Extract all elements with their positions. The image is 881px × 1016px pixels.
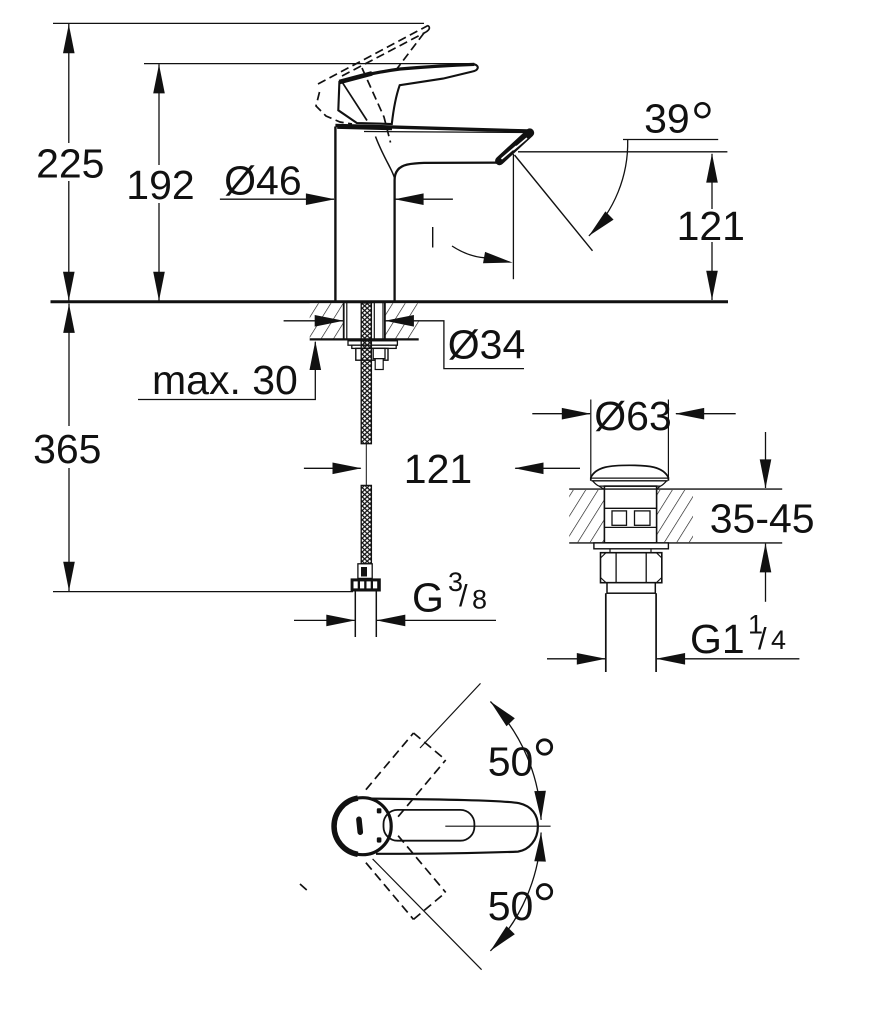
deck line bbox=[51, 300, 729, 303]
shank edges bbox=[343, 303, 345, 339]
bottom view: body circle bbox=[334, 798, 391, 855]
svg-text:G1: G1 bbox=[690, 616, 745, 662]
extension line (192) bbox=[144, 63, 469, 65]
spout top secondary line bbox=[364, 132, 526, 133]
stud lower bbox=[375, 359, 383, 370]
degree symbol 50 down bbox=[537, 885, 551, 899]
dark junction under handle base bbox=[337, 127, 392, 128]
svg-text:121: 121 bbox=[677, 203, 745, 249]
bottom view: 50deg arc up bbox=[490, 702, 541, 820]
svg-text:Ø46: Ø46 bbox=[224, 157, 302, 203]
drain counter bottom line bbox=[569, 542, 782, 544]
svg-text:192: 192 bbox=[126, 162, 194, 208]
mounting stud bbox=[373, 303, 375, 339]
handle raised (dashed) bbox=[316, 26, 429, 143]
svg-text:/: / bbox=[459, 578, 468, 613]
counter hatch right of shank bbox=[385, 303, 419, 338]
svg-text:365: 365 bbox=[33, 426, 101, 472]
svg-text:39: 39 bbox=[644, 96, 690, 142]
dimension 365 vertical line bbox=[68, 304, 70, 426]
drain neck bbox=[609, 549, 611, 553]
svg-text:35-45: 35-45 bbox=[710, 496, 815, 542]
39 degree reference line bbox=[518, 151, 727, 153]
svg-text:50: 50 bbox=[488, 738, 534, 784]
drain collar bbox=[607, 583, 655, 594]
bottom view: lever outline bbox=[370, 799, 538, 854]
svg-text:Ø63: Ø63 bbox=[594, 393, 672, 439]
extension line top (225) bbox=[53, 22, 424, 24]
dimension 121 horizontal bbox=[304, 467, 361, 469]
stream line bbox=[515, 155, 593, 251]
drain dome cap bbox=[591, 465, 669, 481]
drain locknut bbox=[601, 553, 662, 583]
bottom view: extension line up bbox=[420, 683, 481, 748]
bottom view: body circle thick left arc bbox=[334, 798, 358, 854]
bottom view: dashed lever down bbox=[366, 863, 414, 920]
tip highlight streaks bbox=[514, 139, 527, 150]
bottom view: 50deg arc down bbox=[490, 833, 541, 951]
stud nut bbox=[373, 348, 385, 358]
bottom view: dashed lever up bbox=[300, 733, 446, 919]
dimension 35-45 bbox=[765, 432, 767, 488]
deck bottom line bbox=[310, 338, 419, 340]
dimension 121 right vertical bbox=[711, 154, 713, 209]
hose end connector bbox=[358, 564, 372, 579]
drain washer bbox=[594, 543, 669, 549]
bottom view: indicator dots bbox=[377, 808, 382, 813]
dimension G1 1/4 bbox=[547, 658, 605, 660]
bottom view: lever inner bbox=[384, 810, 475, 841]
flexible hose upper bbox=[361, 303, 371, 444]
extension line bottom (365) bbox=[53, 591, 353, 593]
bottom view: extension line down bbox=[373, 859, 482, 970]
degree symbol 50 up bbox=[537, 740, 551, 754]
svg-text:8: 8 bbox=[472, 584, 487, 614]
svg-text:50: 50 bbox=[488, 883, 534, 929]
drain counter top line bbox=[569, 488, 782, 490]
faucet top edge (body to spout tip) bbox=[335, 125, 530, 134]
drain counter hatch bbox=[569, 490, 604, 542]
degree symbol 39 bbox=[696, 103, 710, 117]
drain tailpipe bbox=[605, 593, 607, 672]
stream tick below spout bbox=[432, 227, 434, 248]
faucet body left edge bbox=[334, 127, 336, 301]
svg-text:4: 4 bbox=[771, 625, 786, 655]
dimension D46 arrows bbox=[220, 198, 334, 200]
dimension 225 vertical line bbox=[68, 24, 70, 143]
drain body through counter bbox=[604, 486, 656, 543]
svg-text:max. 30: max. 30 bbox=[152, 357, 298, 403]
dimension G3/8 bbox=[294, 619, 355, 621]
svg-text:225: 225 bbox=[36, 140, 104, 186]
flexible hose lower bbox=[361, 485, 371, 563]
hose nut bbox=[351, 578, 381, 591]
spout projection line bbox=[512, 154, 514, 279]
bottom view: logo mark bbox=[356, 816, 364, 835]
bottom view: centerline bbox=[445, 825, 550, 827]
svg-text:121: 121 bbox=[404, 446, 472, 492]
counter hatch left of shank bbox=[310, 303, 344, 338]
handle top edge thick bbox=[339, 64, 474, 82]
spout tip face band bbox=[500, 133, 530, 161]
mounting nut bbox=[356, 348, 388, 360]
hose gap centerline bbox=[365, 444, 367, 486]
G3/8 pipe bbox=[354, 592, 356, 638]
washer under deck bbox=[348, 341, 397, 345]
stray dash bbox=[300, 884, 309, 892]
body inner curve bbox=[376, 137, 395, 178]
39 degree label shelf bbox=[623, 139, 718, 141]
D63 extension lines bbox=[590, 400, 592, 478]
max.30 leader bbox=[138, 342, 315, 400]
svg-text:Ø34: Ø34 bbox=[448, 322, 526, 368]
39 degree arc bbox=[589, 140, 628, 236]
faucet body right edge and spout underside bbox=[395, 163, 500, 301]
dimension 192 vertical line bbox=[158, 64, 160, 165]
svg-text:/: / bbox=[758, 621, 767, 656]
collar bbox=[352, 345, 396, 348]
flow direction arrow bbox=[452, 246, 485, 258]
svg-text:G: G bbox=[412, 575, 444, 621]
dimension D34 bbox=[284, 320, 343, 322]
dimension D63 bbox=[532, 413, 590, 415]
handle (solid) outline bbox=[338, 64, 477, 124]
handle inner line bbox=[343, 83, 368, 121]
